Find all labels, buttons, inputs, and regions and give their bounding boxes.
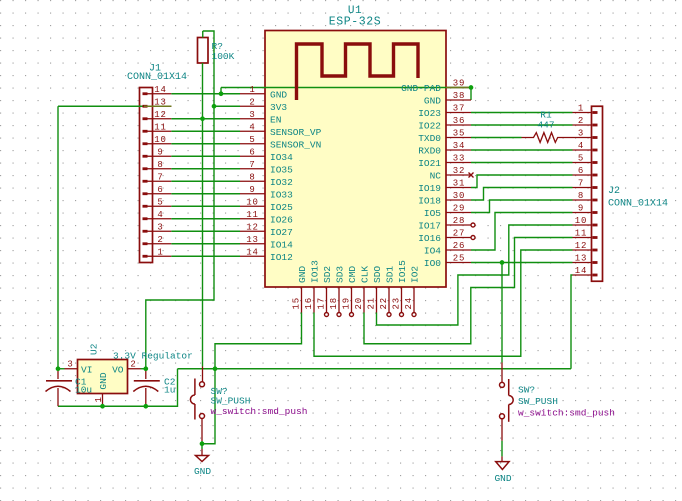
no-connect circles right pins 28 27 <box>471 223 475 227</box>
wire U1.31 IO19 to J2.6 <box>471 175 573 188</box>
svg-text:VO: VO <box>112 364 124 375</box>
wire U1.20 CLK to J2.11 <box>364 238 573 344</box>
svg-text:8: 8 <box>249 172 255 182</box>
U1 pin 3 EN <box>240 110 281 126</box>
svg-text:6: 6 <box>157 185 163 195</box>
wire SW1 bottom green stub <box>201 441 203 444</box>
wire U1.21 SDO to J2.10 <box>377 225 573 325</box>
svg-text:IO32: IO32 <box>270 177 293 188</box>
wire overlap on J1 pin13 stub <box>144 105 171 107</box>
svg-text:CMD: CMD <box>347 266 358 283</box>
wire rail up to J2.14 <box>571 275 573 369</box>
svg-text:4: 4 <box>249 122 255 132</box>
U1 pin 31 IO19 <box>418 179 471 195</box>
svg-text:IO35: IO35 <box>270 164 293 175</box>
wire R? top stub <box>202 31 204 38</box>
op-amp U1 body ESP-32S module <box>265 31 446 288</box>
U1 pin 14 IO12 <box>240 247 293 263</box>
svg-text:GND: GND <box>194 466 211 477</box>
svg-text:37: 37 <box>453 104 466 114</box>
svg-text:IO21: IO21 <box>418 158 441 169</box>
wire EN vertical R? bottom to SW1 <box>202 63 204 367</box>
svg-text:3.3V Regulator: 3.3V Regulator <box>113 351 193 362</box>
connector J1 body <box>140 88 153 263</box>
J2 pin 13 <box>573 254 598 264</box>
wire U1.35 TXD0 to R1 <box>471 137 522 139</box>
J2 pin 1 <box>573 104 598 114</box>
switch SW1 <box>190 367 204 442</box>
J2 pin 11 <box>573 229 598 239</box>
U1 pin 11 IO26 <box>240 210 293 226</box>
U1 pin 6 IO34 <box>240 147 293 163</box>
J1 pin 10 <box>143 135 172 145</box>
J2 pin 10 <box>573 216 598 226</box>
wire U1.34 RXD0 to J2.4 <box>471 149 573 151</box>
U1 pin 15 GND <box>292 266 309 313</box>
svg-text:24: 24 <box>404 297 414 310</box>
svg-text:10: 10 <box>246 197 259 207</box>
svg-text:SW_PUSH: SW_PUSH <box>518 396 558 407</box>
svg-text:12: 12 <box>154 110 167 120</box>
svg-text:IO17: IO17 <box>418 221 441 232</box>
svg-text:3: 3 <box>157 222 163 232</box>
svg-text:100K: 100K <box>212 51 235 62</box>
svg-text:7: 7 <box>249 160 255 170</box>
U1 pin 20 CLK <box>354 266 371 313</box>
U1 pin 28 IO17 <box>418 216 471 232</box>
svg-text:GND: GND <box>424 96 441 107</box>
svg-text:12: 12 <box>575 241 588 251</box>
svg-text:7: 7 <box>157 172 163 182</box>
svg-text:30: 30 <box>453 191 466 201</box>
no-connect X pin 32 NC <box>469 173 474 178</box>
svg-text:27: 27 <box>453 229 466 239</box>
svg-text:1: 1 <box>578 104 584 114</box>
wire GND rail horizontal <box>178 368 572 370</box>
wire segment olive overlap on J1 pin13 <box>144 105 171 107</box>
U1 pin 5 SENSOR_VN <box>240 135 321 151</box>
wire IO0 drop to SW2 <box>501 263 503 363</box>
U1 pin 35 TXD0 <box>418 129 471 145</box>
svg-text:IO15: IO15 <box>397 260 408 283</box>
svg-text:GND: GND <box>98 372 109 389</box>
wire U1.15 GND down to rail <box>215 313 302 369</box>
svg-text:12: 12 <box>246 222 259 232</box>
svg-text:32: 32 <box>453 166 466 176</box>
svg-text:9: 9 <box>157 147 163 157</box>
svg-text:3: 3 <box>67 360 73 370</box>
J2 pin 2 <box>573 116 598 126</box>
J1 pin 11 <box>143 122 172 132</box>
J1 pin 14 <box>143 85 172 95</box>
U1 pin 39 GND-PAD <box>401 79 471 95</box>
svg-text:IO19: IO19 <box>418 183 441 194</box>
svg-text:3: 3 <box>578 129 584 139</box>
U1 pin 32 NC <box>430 166 471 182</box>
U1 pin 38 GND <box>424 91 471 107</box>
svg-text:9: 9 <box>578 204 584 214</box>
svg-text:10: 10 <box>575 216 588 226</box>
svg-text:1: 1 <box>157 247 163 257</box>
svg-text:19: 19 <box>342 297 352 310</box>
svg-text:13: 13 <box>246 235 259 245</box>
U1 pin 7 IO35 <box>240 160 293 176</box>
switch SW2 <box>500 363 514 441</box>
svg-text:6: 6 <box>578 166 584 176</box>
svg-text:SW?: SW? <box>518 385 535 396</box>
J1 pin 6 <box>143 185 172 195</box>
U1 pin 24 IO2 <box>404 266 421 313</box>
svg-text:4: 4 <box>578 141 584 151</box>
J2 pin 14 <box>573 266 598 276</box>
U1 pin 37 IO23 <box>418 104 471 120</box>
svg-text:4: 4 <box>157 210 163 220</box>
svg-text:CLK: CLK <box>360 266 371 283</box>
svg-text:SENSOR_VN: SENSOR_VN <box>270 139 321 150</box>
wire U1.29 IO5 to J2.8 <box>471 200 573 213</box>
U1 pin 27 IO16 <box>418 229 471 245</box>
svg-text:11: 11 <box>246 210 259 220</box>
no-connect circles bottom pins 17 18 19 <box>325 313 329 317</box>
connector J2 body <box>592 106 603 281</box>
resistor R1 zigzag <box>522 133 573 143</box>
svg-text:IO34: IO34 <box>270 152 293 163</box>
J1 pin 3 <box>143 222 172 232</box>
svg-text:RXD0: RXD0 <box>418 146 441 157</box>
svg-text:20: 20 <box>354 297 364 310</box>
svg-text:3V3: 3V3 <box>270 102 287 113</box>
wire U1.33 IO21 to J2.5 <box>471 162 573 164</box>
svg-text:28: 28 <box>453 216 466 226</box>
svg-text:SD2: SD2 <box>322 266 333 283</box>
svg-text:w_switch:smd_push: w_switch:smd_push <box>211 406 308 417</box>
svg-text:10: 10 <box>154 135 167 145</box>
J1 pin 9 <box>143 147 172 157</box>
svg-text:w_switch:smd_push: w_switch:smd_push <box>518 408 615 419</box>
svg-text:36: 36 <box>453 116 466 126</box>
wire U1.37 IO23 to J2.1 <box>471 112 573 114</box>
svg-text:6: 6 <box>249 147 255 157</box>
svg-text:1u: 1u <box>164 385 175 396</box>
svg-text:GND: GND <box>297 266 308 283</box>
wire SW1 bottom return <box>202 369 215 444</box>
J2 pin 12 <box>573 241 598 251</box>
U1 pin 23 IO15 <box>392 260 409 313</box>
J1 pin 13 <box>143 97 172 107</box>
svg-text:IO13: IO13 <box>310 260 321 283</box>
U2 pin 1 GND <box>94 372 109 406</box>
J2 pin 6 <box>573 166 598 176</box>
J1 pin 7 <box>143 172 172 182</box>
wire GND-PAD drop to pin1 row <box>220 88 222 94</box>
svg-text:7: 7 <box>578 179 584 189</box>
wire SW2 bottom green stub <box>501 441 503 457</box>
U1 pin 34 RXD0 <box>418 141 471 157</box>
capacitor C2 <box>133 369 160 407</box>
svg-text:GND: GND <box>270 89 287 100</box>
svg-text:GND-PAD: GND-PAD <box>401 83 441 94</box>
svg-text:3: 3 <box>249 110 255 120</box>
svg-text:38: 38 <box>453 91 466 101</box>
svg-text:9: 9 <box>249 185 255 195</box>
U1 pin 18 SD3 <box>329 266 346 313</box>
svg-text:10u: 10u <box>75 385 92 396</box>
resistor R? body <box>198 38 209 64</box>
U1 pin 17 SD2 <box>317 266 334 313</box>
U2 pin 3 VI <box>65 360 93 376</box>
svg-text:SENSOR_VP: SENSOR_VP <box>270 127 322 138</box>
svg-text:IO22: IO22 <box>418 121 441 132</box>
U1 pin 16 IO13 <box>304 260 321 313</box>
wire rail corner to bottom rail <box>58 369 178 407</box>
svg-text:26: 26 <box>453 241 466 251</box>
svg-text:VI: VI <box>81 364 92 375</box>
svg-text:CONN_01X14: CONN_01X14 <box>127 72 187 83</box>
olive overlap GND-PAD stub <box>446 87 471 89</box>
regulator U2 body <box>78 360 128 394</box>
svg-text:IO18: IO18 <box>418 196 441 207</box>
wire rail to VI pin <box>58 368 65 370</box>
svg-text:23: 23 <box>392 297 402 310</box>
svg-text:13: 13 <box>575 254 588 264</box>
svg-text:14: 14 <box>246 247 259 257</box>
J2 pin 8 <box>573 191 598 201</box>
svg-text:IO0: IO0 <box>424 258 441 269</box>
wire U1.25 IO0 to J2.13 <box>471 262 573 264</box>
svg-text:2: 2 <box>578 116 584 126</box>
svg-text:IO14: IO14 <box>270 239 293 250</box>
svg-text:25: 25 <box>453 254 466 264</box>
wires J1 pins 11..1 to U1 pins 4..14 <box>171 130 240 132</box>
svg-text:GND: GND <box>494 473 511 484</box>
svg-text:NC: NC <box>430 171 442 182</box>
wire U2 VO to junction <box>141 368 146 370</box>
svg-text:16: 16 <box>304 297 314 310</box>
wire GND-PAD net across U1 <box>221 87 471 89</box>
wire U1.36 IO22 to J2.2 <box>471 124 573 126</box>
svg-text:SDO: SDO <box>372 266 383 283</box>
U1 pin 33 IO21 <box>418 154 471 170</box>
svg-text:IO27: IO27 <box>270 227 293 238</box>
svg-text:U2: U2 <box>89 343 100 355</box>
J2 pin 4 <box>573 141 598 151</box>
wire J1.14 to U1 pin1 GND row <box>171 93 240 95</box>
svg-text:IO33: IO33 <box>270 189 293 200</box>
U1 pin 36 IO22 <box>418 116 471 132</box>
J2 pin 7 <box>573 179 598 189</box>
ground symbol under SW1 <box>196 449 209 462</box>
svg-text:5: 5 <box>578 154 584 164</box>
U1 pin 12 IO27 <box>240 222 293 238</box>
J2 pin 5 <box>573 154 598 164</box>
U1 antenna meander <box>297 44 419 100</box>
J2 pin 9 <box>573 204 598 214</box>
J1 pin 2 <box>143 235 172 245</box>
ground symbol under SW2 <box>496 456 509 469</box>
svg-text:5: 5 <box>249 135 255 145</box>
svg-text:34: 34 <box>453 141 466 151</box>
svg-text:22: 22 <box>379 297 389 310</box>
wire J1.12 to U1 EN <box>171 118 240 120</box>
svg-text:35: 35 <box>453 129 466 139</box>
U1 pin 2 3V3 <box>240 97 287 113</box>
svg-text:1: 1 <box>94 396 104 402</box>
U1 pin 9 IO33 <box>240 185 293 201</box>
svg-text:SW_PUSH: SW_PUSH <box>211 396 251 407</box>
svg-text:11: 11 <box>154 122 167 132</box>
svg-text:15: 15 <box>292 297 302 310</box>
U1 pin 21 SDO <box>367 266 384 313</box>
svg-text:11: 11 <box>575 229 588 239</box>
svg-text:IO4: IO4 <box>424 246 441 257</box>
svg-text:SD3: SD3 <box>335 266 346 283</box>
no-connect circles bottom pins 22 23 24 <box>387 313 391 317</box>
svg-text:5: 5 <box>157 197 163 207</box>
wire U1.16 IO13 to J2.12 <box>314 250 573 356</box>
svg-text:14: 14 <box>575 266 588 276</box>
junction dots <box>56 366 61 371</box>
J1 pin 4 <box>143 210 172 220</box>
U1 pin 30 IO18 <box>418 191 471 207</box>
U1 pin 22 SD1 <box>379 266 396 313</box>
J1 pin 12 <box>143 110 172 120</box>
svg-text:17: 17 <box>317 297 327 310</box>
svg-text:18: 18 <box>329 297 339 310</box>
U1 pin 25 IO0 <box>424 254 471 270</box>
svg-text:2: 2 <box>157 235 163 245</box>
wire 3V3 row to U1 pin2 <box>214 105 240 107</box>
svg-text:2: 2 <box>130 360 136 370</box>
wire left rail down to U2 VI <box>57 106 59 369</box>
svg-text:CONN_01X14: CONN_01X14 <box>608 199 668 210</box>
wire J1.13 net to left rail <box>58 105 171 107</box>
wire 3V3 net: R? top corner to VO <box>146 31 214 369</box>
svg-text:IO12: IO12 <box>270 252 293 263</box>
U2 pin 2 VO <box>112 360 140 376</box>
wire U1.26 IO4 to J2.9 <box>471 213 573 251</box>
svg-text:ESP-32S: ESP-32S <box>329 16 382 29</box>
svg-text:EN: EN <box>270 114 281 125</box>
U1 pin 1 GND <box>240 85 287 101</box>
svg-text:IO26: IO26 <box>270 214 293 225</box>
svg-text:IO2: IO2 <box>410 266 421 283</box>
capacitor C1 <box>46 369 73 407</box>
svg-text:29: 29 <box>453 204 466 214</box>
svg-text:21: 21 <box>367 297 377 310</box>
U1 pin 29 IO5 <box>424 204 471 220</box>
svg-text:IO25: IO25 <box>270 202 293 213</box>
svg-text:1: 1 <box>249 85 255 95</box>
U1 pin 19 CMD <box>342 266 359 313</box>
svg-text:31: 31 <box>453 179 466 189</box>
U1 pin 4 SENSOR_VP <box>240 122 322 138</box>
svg-text:447: 447 <box>537 120 554 131</box>
U1 pin 13 IO14 <box>240 235 293 251</box>
svg-text:IO23: IO23 <box>418 108 441 119</box>
svg-text:2: 2 <box>249 97 255 107</box>
svg-text:14: 14 <box>154 85 167 95</box>
svg-text:8: 8 <box>157 160 163 170</box>
svg-text:33: 33 <box>453 154 466 164</box>
U1 pin 8 IO32 <box>240 172 293 188</box>
svg-text:8: 8 <box>578 191 584 201</box>
svg-text:J2: J2 <box>608 186 620 197</box>
J1 pin 8 <box>143 160 172 170</box>
U1 pin 26 IO4 <box>424 241 471 257</box>
wire U1.30 IO18 to J2.7 <box>471 188 573 201</box>
svg-text:IO5: IO5 <box>424 208 441 219</box>
svg-text:TXD0: TXD0 <box>418 133 441 144</box>
svg-text:SD1: SD1 <box>385 266 396 283</box>
svg-text:IO16: IO16 <box>418 233 441 244</box>
J2 pin 3 <box>573 129 598 139</box>
J1 pin 5 <box>143 197 172 207</box>
wire GND-PAD to pin38 <box>470 88 472 101</box>
J1 pin 1 <box>143 247 172 257</box>
U1 pin 10 IO25 <box>240 197 293 213</box>
